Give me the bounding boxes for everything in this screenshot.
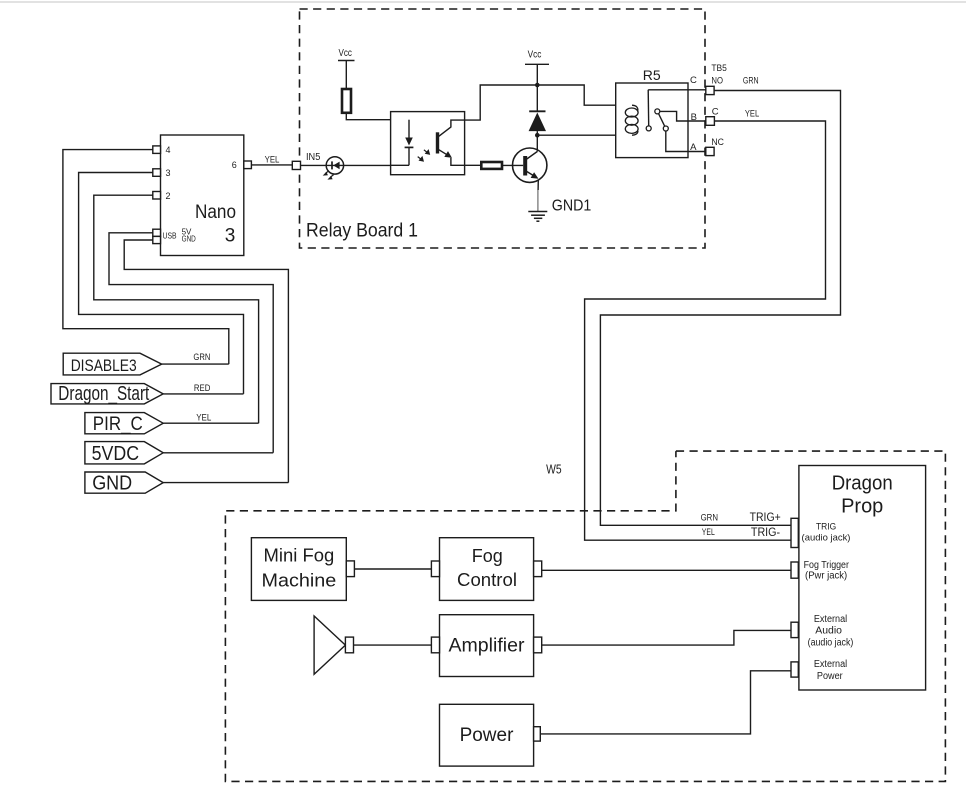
svg-text:C: C	[690, 75, 697, 86]
svg-text:External: External	[814, 659, 847, 670]
svg-text:GRN: GRN	[193, 352, 210, 363]
svg-text:Relay Board 1: Relay Board 1	[306, 221, 418, 242]
svg-text:(audio jack): (audio jack)	[808, 638, 854, 649]
svg-text:3: 3	[166, 168, 171, 178]
svg-text:GRN: GRN	[701, 513, 719, 524]
svg-text:Nano: Nano	[195, 202, 236, 223]
svg-text:TRIG+: TRIG+	[750, 512, 781, 524]
svg-text:3: 3	[225, 226, 236, 247]
svg-text:Vcc: Vcc	[339, 48, 352, 59]
svg-text:Power: Power	[460, 725, 514, 746]
svg-text:NC: NC	[711, 137, 724, 148]
svg-text:NO: NO	[711, 76, 723, 87]
svg-text:USB: USB	[163, 231, 177, 241]
svg-text:YEL: YEL	[745, 108, 759, 119]
svg-text:C: C	[712, 107, 719, 118]
svg-text:Amplifier: Amplifier	[449, 636, 526, 657]
svg-text:Control: Control	[457, 570, 517, 590]
svg-text:GND: GND	[182, 235, 196, 244]
svg-text:YEL: YEL	[196, 412, 211, 423]
svg-text:6: 6	[232, 160, 237, 170]
svg-text:YEL: YEL	[702, 527, 715, 538]
svg-text:GRN: GRN	[743, 76, 759, 87]
svg-text:PIR_C: PIR_C	[93, 414, 143, 435]
svg-text:Fog Trigger: Fog Trigger	[804, 560, 850, 571]
svg-text:Fog: Fog	[472, 546, 503, 566]
svg-text:2: 2	[166, 191, 171, 201]
svg-text:TB5: TB5	[711, 63, 727, 74]
svg-text:(audio jack): (audio jack)	[802, 533, 851, 544]
svg-text:IN5: IN5	[306, 152, 321, 163]
svg-text:Mini Fog: Mini Fog	[264, 546, 335, 566]
svg-text:Machine: Machine	[262, 571, 337, 591]
svg-text:Audio: Audio	[815, 626, 842, 637]
svg-text:GND1: GND1	[552, 198, 592, 215]
svg-text:Dragon_Start: Dragon_Start	[58, 383, 149, 405]
svg-text:GND: GND	[92, 472, 132, 494]
svg-text:Dragon: Dragon	[832, 473, 893, 495]
svg-text:TRIG-: TRIG-	[751, 527, 780, 539]
svg-text:R5: R5	[643, 67, 661, 83]
svg-text:Power: Power	[817, 671, 843, 682]
svg-text:W5: W5	[546, 462, 562, 476]
svg-text:5VDC: 5VDC	[92, 443, 140, 465]
svg-text:4: 4	[166, 145, 171, 155]
svg-text:B: B	[691, 112, 697, 123]
svg-text:Prop: Prop	[841, 496, 883, 518]
svg-text:DISABLE3: DISABLE3	[71, 356, 137, 375]
svg-text:A: A	[690, 142, 697, 153]
svg-text:External: External	[814, 614, 847, 625]
svg-text:TRIG: TRIG	[816, 521, 836, 532]
svg-text:RED: RED	[194, 383, 211, 394]
svg-text:(Pwr jack): (Pwr jack)	[805, 571, 847, 582]
svg-text:YEL: YEL	[265, 155, 280, 166]
svg-text:Vcc: Vcc	[528, 50, 542, 61]
